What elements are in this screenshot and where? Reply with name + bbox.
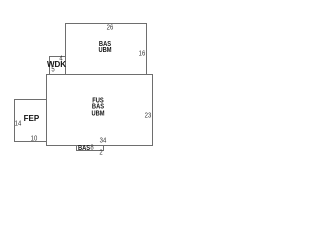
label BAS/UBM (top box) [98, 42, 111, 54]
label FUS/BAS/UBM (main box) [91, 99, 104, 118]
dim 5 (WDK) [51, 66, 54, 73]
label BAS (bottom strip) [77, 146, 89, 152]
dim 34 (main box width) [99, 138, 106, 145]
dim 10 (FEP width) [31, 135, 38, 142]
label FEP [24, 115, 40, 123]
WDK box [49, 56, 66, 75]
label WDK [47, 61, 66, 69]
dim 8 (strip width) [90, 144, 93, 151]
dim 23 (main box height) [145, 112, 152, 119]
dim 4 (WDK) [59, 56, 62, 63]
dim 14 (FEP height) [14, 120, 21, 127]
dim 2 (strip height) [99, 149, 102, 156]
main box FUS/BAS/UBM [46, 74, 153, 146]
dim 26 (top box width) [106, 24, 113, 31]
top box BAS/UBM [65, 23, 147, 75]
BAS strip box [76, 145, 104, 151]
dim 16 (top box height) [138, 51, 145, 58]
FEP box [14, 99, 47, 142]
